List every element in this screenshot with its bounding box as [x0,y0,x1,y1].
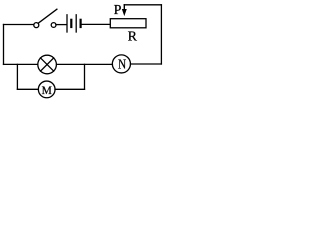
svg-text:P: P [114,3,122,18]
wire top-left horizontal [4,24,34,26]
wire motor-row right [55,88,85,90]
wire left vertical [3,25,5,65]
rheostat wiper arrow [122,5,126,15]
wire battery to rheostat [82,23,110,25]
wire meter N to right [131,63,162,65]
meter N [112,55,130,73]
switch S [34,9,57,27]
lamp L [38,55,57,74]
wire motor-row left [17,88,38,90]
battery [67,15,81,32]
svg-text:N: N [118,58,126,73]
wire switch to battery [56,24,67,26]
wire lamp to meter N [57,63,113,65]
motor M [38,81,55,98]
wire motor branch vertical [16,64,18,89]
wire top-right horizontal [124,4,161,6]
wire lamp-row left [4,63,38,65]
wire right vertical [160,5,162,64]
wire parallel join vertical [84,64,86,89]
svg-text:R: R [128,29,138,44]
rheostat R box [110,19,146,28]
svg-text:M: M [42,85,52,97]
